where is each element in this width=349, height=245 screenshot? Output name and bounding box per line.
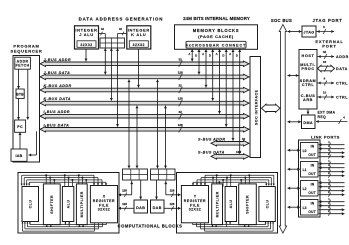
Y computational block box	[177, 173, 278, 234]
X top operand bus 1	[24, 177, 98, 179]
L2 signal 2	[319, 190, 345, 192]
wire J-BUS DATA to Y buffer	[157, 80, 159, 169]
X side bus buffer	[123, 169, 148, 180]
memory D wire 2	[212, 49, 214, 100]
link port L1	[301, 162, 319, 178]
X register file	[90, 186, 117, 223]
wire IAB to PC	[19, 132, 21, 149]
svg-text:CLU: CLU	[265, 200, 269, 209]
X bottom operand bus 3	[30, 224, 107, 226]
memory A wire 4	[232, 49, 234, 141]
svg-text:FILE: FILE	[190, 203, 200, 207]
L0 signal 2	[319, 152, 345, 154]
svg-text:OUT: OUT	[308, 153, 316, 157]
svg-text:IN: IN	[311, 202, 315, 206]
memory D wire 4	[239, 49, 241, 154]
Y bottom operand bus 2	[197, 226, 269, 228]
svg-text:128: 128	[170, 202, 175, 206]
svg-text:D: D	[209, 54, 211, 58]
svg-text:S-BUS ADDR: S-BUS ADDR	[198, 137, 226, 141]
svg-text:FILE: FILE	[99, 203, 109, 207]
L2 signal 1	[319, 186, 345, 188]
wire X buffer to DAB	[140, 180, 142, 199]
svg-text:CTRL: CTRL	[336, 82, 348, 86]
wire DAG buffer to I-BUS DATA	[117, 48, 119, 127]
wire X buffer to X register file, 128	[131, 181, 133, 195]
Y bottom operand bus 3	[193, 224, 266, 226]
svg-text:32X32: 32X32	[189, 208, 201, 212]
svg-text:J ALU: J ALU	[79, 32, 94, 37]
svg-text:128: 128	[122, 189, 127, 193]
svg-text:ARB: ARB	[303, 98, 313, 102]
wire J ALU to J-BUS ADDR	[85, 49, 87, 61]
svg-text:CLU: CLU	[28, 200, 32, 209]
wire BTB to PC	[18, 98, 20, 119]
svg-text:DMA: DMA	[303, 121, 313, 125]
memory A wire 3	[219, 49, 221, 113]
svg-text:PORT: PORT	[322, 44, 337, 49]
wire addr fetch to BTB	[18, 69, 20, 88]
Y block unit SHIFTER	[239, 184, 257, 225]
DAB X box	[134, 200, 148, 213]
bus J-BUS DATA	[40, 74, 249, 79]
bus K-BUS ADDR	[40, 87, 249, 92]
svg-text:MULTI-: MULTI-	[300, 63, 316, 67]
Y block unit CLU	[259, 187, 275, 222]
hook wire K ALU to buffer, 32	[118, 33, 127, 35]
svg-text:ALU: ALU	[66, 200, 70, 209]
Y side bus buffer	[151, 169, 176, 180]
X top operand bus 0	[22, 174, 94, 176]
SOC interface box	[250, 57, 261, 158]
svg-text:32: 32	[242, 137, 246, 141]
svg-text:IN: IN	[311, 164, 315, 168]
memory A wire 2	[205, 49, 207, 87]
svg-text:L0: L0	[303, 149, 307, 153]
svg-text:128: 128	[178, 123, 183, 127]
svg-text:CTRL: CTRL	[336, 96, 348, 100]
IAB block	[11, 149, 27, 161]
Y bottom operand bus 0	[205, 230, 274, 232]
svg-text:CTRL: CTRL	[302, 83, 315, 87]
L2 signal 3	[319, 194, 345, 196]
program sequencer box	[13, 56, 40, 163]
bus K-BUS DATA	[40, 100, 249, 105]
svg-text:128: 128	[178, 97, 183, 101]
wire Y buffer to Y register file, 128	[165, 181, 167, 195]
SOC bus vertical	[279, 25, 286, 234]
svg-text:S-BUS DATA: S-BUS DATA	[198, 150, 225, 154]
link port L3	[301, 200, 319, 216]
svg-text:COMPUTATIONAL BLOCKS: COMPUTATIONAL BLOCKS	[118, 224, 183, 229]
svg-text:A: A	[229, 52, 231, 56]
svg-text:MEMORY BLOCKS: MEMORY BLOCKS	[193, 28, 240, 33]
bus S-BUS DATA	[211, 154, 249, 159]
svg-text:DAB: DAB	[136, 206, 145, 210]
L3 signal 3	[319, 213, 345, 215]
svg-text:PROC: PROC	[301, 67, 314, 71]
wire DAB to X register file, 128	[118, 207, 133, 209]
svg-text:32X32: 32X32	[133, 43, 145, 47]
link port L2	[301, 181, 319, 197]
svg-text:K ALU: K ALU	[131, 32, 146, 37]
Y top operand bus 1	[201, 177, 271, 179]
wire SOC bus to external port	[288, 75, 299, 77]
svg-text:LINK PORTS: LINK PORTS	[311, 135, 340, 140]
svg-text:REQ: REQ	[318, 115, 327, 119]
svg-text:PC: PC	[17, 125, 23, 129]
X block unit ALU	[62, 187, 73, 222]
L3 signal 0	[319, 201, 345, 203]
Y top operand bus 0	[205, 174, 274, 176]
L1 signal 3	[319, 175, 345, 177]
svg-text:32: 32	[179, 84, 183, 88]
Y block unit ALU	[225, 187, 236, 222]
svg-text:HOST: HOST	[302, 54, 315, 58]
internal memory box	[175, 25, 258, 50]
wire DAG buffer to J-BUS DATA	[104, 48, 106, 74]
DAB Y box	[151, 200, 165, 213]
svg-text:128: 128	[170, 189, 175, 193]
svg-text:64: 64	[323, 60, 327, 64]
svg-text:J-BUS DATA: J-BUS DATA	[44, 71, 71, 75]
svg-text:OUT: OUT	[308, 210, 316, 214]
X block unit CLU	[22, 187, 39, 222]
svg-text:SHIFTER: SHIFTER	[246, 195, 250, 214]
hook wire J ALU to buffer, 32	[99, 33, 106, 35]
L3 signal 1	[319, 205, 345, 207]
bus S-BUS ADDR	[211, 141, 249, 146]
crossbar connect box	[186, 41, 246, 48]
svg-text:OUT: OUT	[308, 191, 316, 195]
L0 signal 1	[319, 148, 345, 150]
bypass wire addr fetch to PC	[27, 69, 29, 119]
svg-text:DATA: DATA	[336, 67, 348, 71]
svg-text:K-BUS DATA: K-BUS DATA	[44, 97, 71, 101]
L1 signal 0	[319, 163, 345, 165]
BTB block	[16, 89, 24, 98]
svg-text:C-BUS: C-BUS	[301, 94, 316, 98]
svg-text:24M BITS INTERNAL MEMORY: 24M BITS INTERNAL MEMORY	[183, 16, 250, 21]
link port L0	[301, 143, 319, 159]
memory D wire 1	[198, 49, 200, 74]
svg-text:D: D	[236, 54, 238, 58]
wire SOC bus to L2	[288, 187, 301, 189]
X top operand bus 3	[29, 181, 106, 183]
PC block	[15, 120, 26, 132]
wire K-BUS DATA to Y buffer	[165, 106, 167, 169]
svg-text:IAB: IAB	[15, 154, 22, 158]
wire Y buffer to DAB	[156, 180, 158, 199]
wire I-BUS to IAB	[36, 131, 38, 155]
svg-text:128: 128	[122, 202, 127, 206]
wire K ALU to K-BUS ADDR	[138, 49, 140, 87]
svg-text:A: A	[202, 52, 204, 56]
svg-text:DATA ADDRESS GENERATION: DATA ADDRESS GENERATION	[79, 17, 164, 22]
svg-text:I-BUS ADDR: I-BUS ADDR	[44, 110, 71, 114]
svg-text:A: A	[216, 52, 218, 56]
svg-text:SOC INTERFACE: SOC INTERFACE	[254, 89, 258, 125]
svg-text:BTB: BTB	[16, 93, 24, 97]
JTAG box	[302, 26, 316, 37]
X top operand bus 2	[27, 179, 102, 181]
svg-text:L3: L3	[303, 206, 307, 210]
svg-text:FETCH: FETCH	[16, 64, 30, 68]
svg-text:K-BUS ADDR: K-BUS ADDR	[44, 84, 72, 88]
X computational block box	[18, 173, 119, 234]
svg-text:JTAG PORT: JTAG PORT	[313, 18, 343, 23]
svg-text:EXT DMA: EXT DMA	[318, 110, 336, 114]
svg-text:REGISTER: REGISTER	[184, 199, 206, 203]
bus I-BUS DATA	[40, 127, 249, 132]
svg-text:32: 32	[323, 50, 327, 54]
svg-text:I-BUS DATA: I-BUS DATA	[44, 123, 70, 127]
svg-text:(PAGE CACHE): (PAGE CACHE)	[198, 34, 234, 39]
memory A wire 1	[191, 49, 193, 61]
X block unit MULTIPLIER	[76, 184, 87, 225]
svg-text:D: D	[195, 54, 197, 58]
svg-text:SDRAM: SDRAM	[300, 79, 316, 83]
svg-text:10: 10	[323, 90, 327, 94]
svg-text:4xCROSSBAR CONNECT: 4xCROSSBAR CONNECT	[186, 44, 246, 48]
wire J-BUS DATA to X buffer	[128, 80, 130, 169]
X bottom operand bus 1	[25, 228, 99, 230]
svg-text:ADDR: ADDR	[336, 55, 349, 59]
L1 signal 1	[319, 167, 345, 169]
signal ADDR 32	[318, 56, 335, 58]
svg-text:MULTIPLIER: MULTIPLIER	[80, 191, 84, 217]
X bottom operand bus 2	[27, 226, 102, 228]
bus I-BUS ADDR	[40, 114, 249, 119]
wire SOC bus to L0	[288, 149, 301, 151]
DAG middle buffer block	[100, 38, 125, 48]
wire DAG buffer to K-BUS DATA	[110, 48, 112, 100]
svg-text:L2: L2	[303, 187, 307, 191]
Y register file	[181, 186, 208, 223]
X bottom operand bus 0	[22, 230, 94, 232]
svg-text:JTAG: JTAG	[303, 30, 314, 34]
wire external port to DMA	[307, 109, 309, 114]
thick arrow SOC interface to SOC bus	[262, 104, 281, 112]
svg-text:32: 32	[179, 110, 183, 114]
svg-text:32X32: 32X32	[98, 208, 110, 212]
L1 signal 2	[319, 171, 345, 173]
link ports box	[299, 140, 321, 217]
svg-text:IN: IN	[311, 145, 315, 149]
DMA box	[302, 115, 316, 129]
integer K ALU box	[127, 26, 151, 49]
wire SOC bus to L3	[288, 206, 301, 208]
memory D wire 3	[225, 49, 227, 127]
signal CTRL 10	[318, 96, 335, 98]
svg-text:128: 128	[178, 71, 183, 75]
svg-text:ALU: ALU	[229, 200, 233, 209]
wire SOC bus to DMA	[288, 121, 302, 123]
svg-text:DAB: DAB	[153, 206, 162, 210]
svg-text:32X32: 32X32	[80, 43, 92, 47]
svg-text:MULTIPLIER: MULTIPLIER	[215, 191, 219, 217]
Y bottom operand bus 1	[201, 228, 271, 230]
svg-text:SEQUENCER: SEQUENCER	[10, 48, 42, 53]
JTAG signal 6	[317, 31, 335, 33]
wire DAB to Y register file, 128	[165, 207, 181, 209]
wire SOC bus to L1	[288, 168, 301, 170]
integer J ALU box	[75, 26, 99, 49]
L0 signal 3	[319, 156, 345, 158]
wire K-BUS DATA to X buffer	[136, 106, 138, 169]
Y block unit MULTIPLIER	[212, 184, 223, 225]
svg-text:A: A	[188, 52, 190, 56]
X block unit SHIFTER	[43, 184, 60, 225]
svg-text:D: D	[222, 54, 224, 58]
Y top operand bus 2	[197, 179, 269, 181]
svg-text:OUT: OUT	[308, 172, 316, 176]
svg-text:SHIFTER: SHIFTER	[50, 195, 54, 214]
wire SOC bus to JTAG	[288, 31, 302, 33]
L0 signal 0	[319, 144, 345, 146]
svg-text:J-BUS ADDR: J-BUS ADDR	[44, 58, 72, 62]
svg-text:IN: IN	[311, 183, 315, 187]
svg-text:32: 32	[179, 57, 183, 61]
signal DATA 64	[318, 65, 335, 71]
external port box	[299, 50, 317, 110]
bus J-BUS ADDR	[40, 61, 249, 66]
svg-text:SOC BUS: SOC BUS	[271, 18, 292, 23]
L3 signal 2	[319, 209, 345, 211]
Y top operand bus 3	[193, 181, 266, 183]
svg-text:L1: L1	[303, 168, 307, 172]
addr fetch block	[15, 57, 31, 69]
signal CTRL 6	[318, 82, 335, 84]
L2 signal 0	[319, 182, 345, 184]
svg-text:REGISTER: REGISTER	[93, 199, 115, 203]
